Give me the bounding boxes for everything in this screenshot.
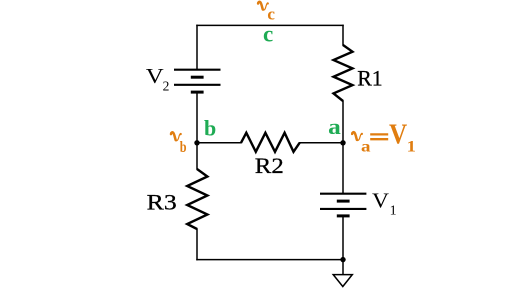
svg-text:R3: R3 (147, 189, 177, 214)
svg-text:R1: R1 (357, 65, 383, 90)
wire middle right (R2 to a) (300, 142, 343, 144)
wire right top (top to R1) (342, 25, 344, 45)
wire right (R1 to node a) (342, 101, 344, 143)
label V1 (372, 189, 397, 218)
svg-text:c: c (263, 21, 273, 46)
ground (333, 275, 352, 287)
wire top horizontal c (197, 24, 343, 26)
bottom junction dot (340, 257, 345, 262)
svg-text:a: a (328, 114, 341, 139)
label V2 (146, 64, 170, 94)
wire left bottom (R3 to bottom) (196, 229, 198, 260)
label v_a = V_1 (352, 119, 416, 155)
svg-text:R2: R2 (255, 153, 284, 178)
svg-text:V: V (372, 189, 389, 213)
svg-text:V: V (389, 119, 407, 150)
svg-text:1: 1 (390, 203, 397, 218)
node b junction dot (194, 140, 199, 145)
wire right (a to V1) (342, 143, 344, 194)
svg-text:a: a (361, 138, 371, 155)
svg-text:V: V (146, 64, 164, 88)
resistor R1 (334, 45, 353, 101)
wire ground stem (342, 260, 344, 275)
wire left top (top to V2) (196, 25, 198, 69)
node a junction dot (340, 140, 345, 145)
wire left (V2 to node b) (196, 92, 198, 143)
svg-text:2: 2 (163, 79, 170, 94)
svg-text:b: b (204, 116, 216, 141)
label v_b (171, 132, 187, 156)
wire left (b to R3) (196, 143, 198, 169)
battery V2 (174, 70, 221, 92)
wire middle left (b to R2) (197, 142, 241, 144)
svg-text:1: 1 (407, 139, 416, 156)
svg-text:b: b (180, 139, 187, 156)
wire bottom horizontal (197, 259, 343, 261)
wire right bottom (V1 to bottom junction) (342, 216, 344, 260)
battery V1 (320, 194, 366, 216)
resistor R3 (187, 169, 207, 229)
label v_c (258, 2, 275, 24)
resistor R2 (241, 133, 300, 152)
